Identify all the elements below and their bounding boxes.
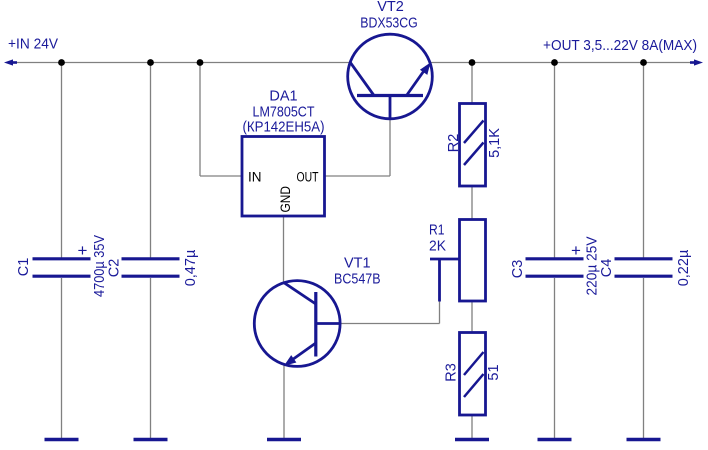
svg-text:VT1: VT1 — [344, 256, 371, 272]
svg-text:5,1K: 5,1K — [487, 128, 503, 158]
svg-text:R1: R1 — [429, 223, 445, 239]
svg-text:BC547B: BC547B — [334, 271, 381, 287]
svg-text:0,22µ: 0,22µ — [676, 249, 692, 286]
svg-text:51: 51 — [486, 364, 502, 380]
svg-text:GND: GND — [278, 186, 293, 213]
svg-text:LM7805CT: LM7805CT — [253, 104, 315, 120]
svg-text:R3: R3 — [444, 363, 460, 382]
svg-text:C3: C3 — [510, 260, 526, 279]
svg-text:C1: C1 — [16, 258, 32, 277]
svg-text:+: + — [571, 241, 581, 260]
svg-text:+IN 24V: +IN 24V — [8, 37, 58, 53]
svg-text:OUT: OUT — [297, 170, 319, 185]
svg-text:DA1: DA1 — [269, 88, 297, 104]
svg-text:C2: C2 — [107, 259, 123, 278]
svg-text:+: + — [78, 241, 88, 260]
svg-text:+OUT 3,5...22V 8A(MAX): +OUT 3,5...22V 8A(MAX) — [543, 38, 697, 54]
svg-text:VT2: VT2 — [377, 0, 404, 15]
svg-text:2K: 2K — [429, 239, 446, 255]
svg-text:R2: R2 — [446, 134, 462, 153]
svg-text:C4: C4 — [599, 259, 615, 278]
svg-text:(КР142ЕН5А): (КР142ЕН5А) — [243, 119, 325, 135]
svg-text:BDX53CG: BDX53CG — [360, 15, 418, 31]
svg-text:IN: IN — [248, 170, 262, 185]
svg-text:0,47µ: 0,47µ — [183, 249, 199, 286]
